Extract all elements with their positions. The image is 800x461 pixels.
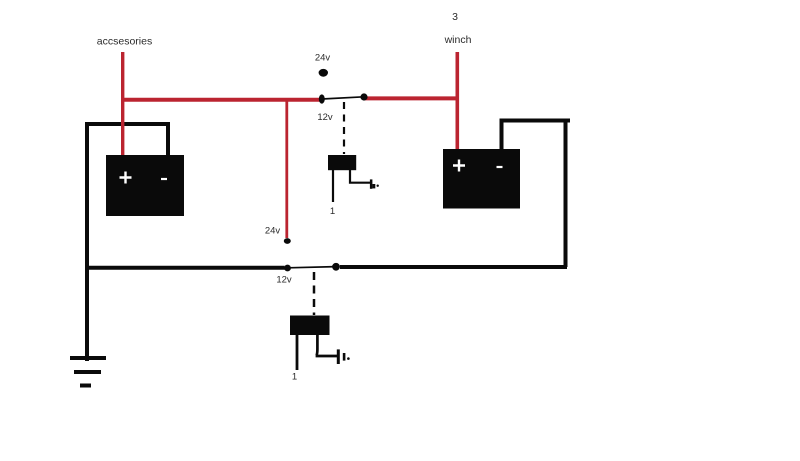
node lower 24v terminal	[284, 238, 291, 244]
relay K1 pin 2 lead	[350, 170, 371, 183]
svg-text:winch: winch	[444, 34, 472, 46]
svg-text:accsesories: accsesories	[97, 36, 152, 48]
wire red winch battery positive lead	[455, 52, 459, 149]
ground symbol bar 3	[80, 384, 91, 388]
wire dashed relay K2 control link	[313, 272, 316, 315]
ground symbol bar 1	[70, 356, 106, 360]
wire red supply bus right segment	[365, 96, 458, 100]
relay K2 contact bar	[337, 349, 340, 364]
relay K1 body	[328, 155, 356, 170]
switch SW2 common node	[284, 265, 291, 272]
relay K1 contact dot	[377, 185, 379, 187]
switch SW2 lever	[288, 267, 336, 268]
wire black battery B1 negative hook to ground rail	[87, 124, 168, 361]
svg-text:12v: 12v	[317, 112, 333, 123]
relay K2 body	[290, 316, 330, 336]
wire red 24v tap down to lower switch	[285, 99, 288, 238]
svg-text:1: 1	[330, 206, 335, 217]
svg-text:24v: 24v	[315, 53, 331, 64]
relay K1 contact pole	[372, 184, 375, 188]
relay K2 contact pole	[343, 353, 346, 361]
battery B1 minus marking	[161, 178, 167, 180]
relay K1 contact bar	[370, 179, 373, 188]
wire red supply bus left segment	[121, 98, 322, 102]
node upper 24v terminal	[319, 69, 328, 77]
svg-text:24v: 24v	[265, 226, 281, 237]
svg-text:1: 1	[292, 372, 297, 383]
switch SW1 throw node	[360, 93, 367, 100]
battery B2 winch body	[443, 149, 520, 209]
battery B2 plus marking	[453, 160, 465, 172]
wire black battery B2 negative hook to ground bus	[502, 119, 571, 268]
battery B1 plus marking	[120, 172, 132, 184]
switch SW2 throw node	[332, 263, 340, 271]
battery B2 minus marking	[497, 166, 503, 168]
ground symbol bar 2	[74, 370, 101, 374]
relay K1 pin 1 lead	[332, 170, 334, 202]
relay K2 contact dot	[347, 357, 350, 360]
svg-text:12v: 12v	[276, 275, 292, 286]
switch SW1 lever	[322, 97, 364, 99]
wire dashed relay K1 control link	[343, 102, 345, 154]
wire red accsesories battery positive lead	[121, 52, 124, 156]
relay K2 pin 2 lead	[316, 335, 338, 356]
relay K2 pin 1 lead	[296, 335, 299, 370]
wire black ground bus left segment	[85, 266, 285, 270]
switch SW1 common node	[319, 94, 325, 103]
wire black ground bus right segment	[340, 265, 567, 269]
svg-text:3: 3	[452, 11, 458, 23]
battery B1 accsesories body	[106, 155, 184, 216]
